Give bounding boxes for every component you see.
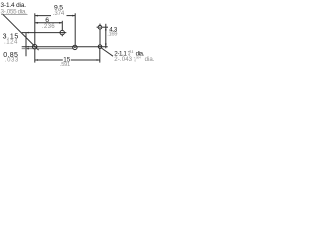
svg-text:2-.043: 2-.043 (114, 56, 132, 63)
svg-text:.124: .124 (4, 39, 18, 46)
svg-text:.374: .374 (53, 10, 65, 17)
svg-text:dia.: dia. (145, 56, 155, 63)
svg-text:.169: .169 (107, 32, 117, 38)
svg-text:.033: .033 (5, 57, 19, 64)
svg-text:3-.055 dia.: 3-.055 dia. (1, 9, 28, 16)
svg-text:.591: .591 (60, 62, 70, 68)
svg-text:.236: .236 (42, 23, 55, 30)
